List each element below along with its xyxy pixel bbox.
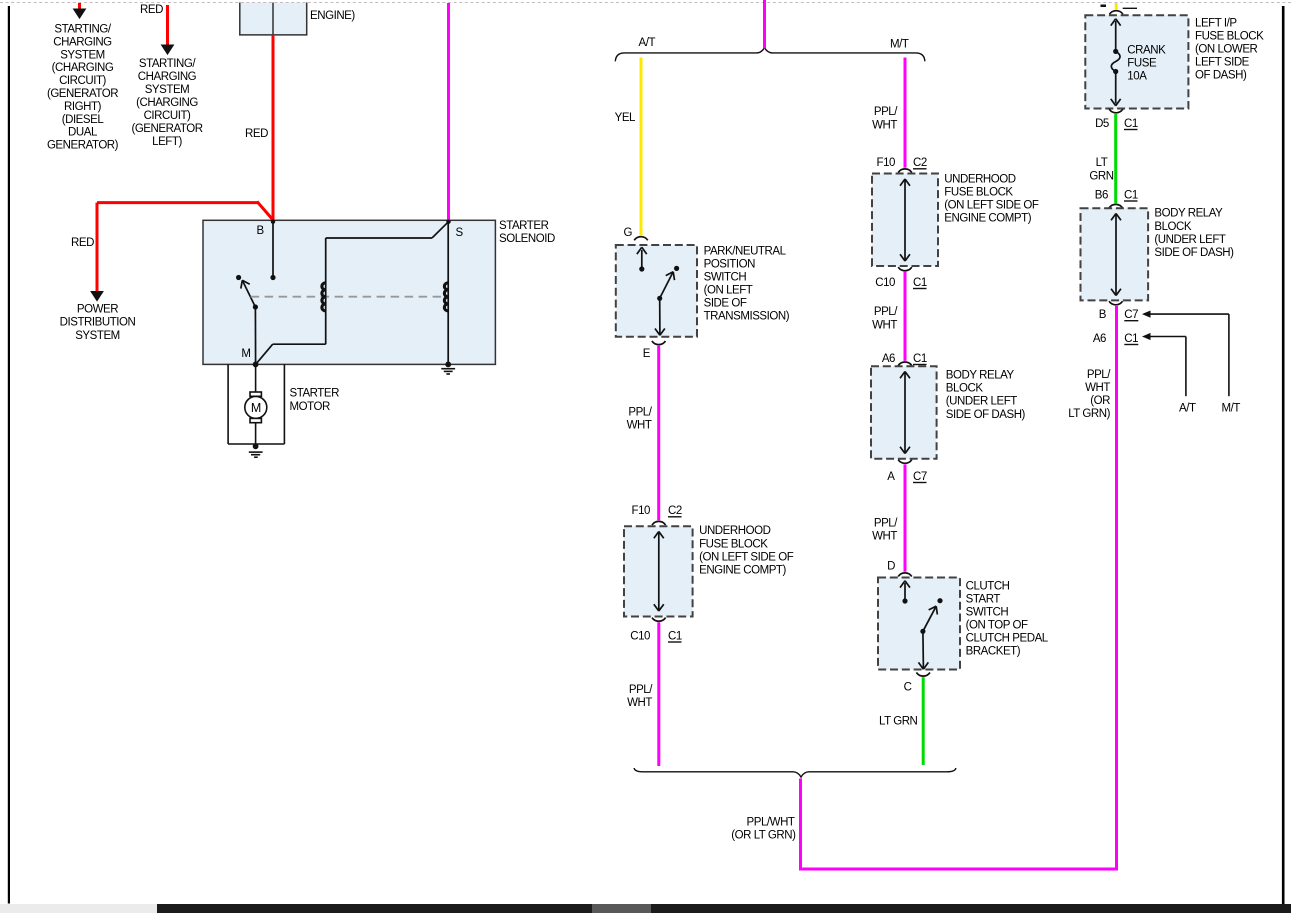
- svg-text:SIDE OF DASH): SIDE OF DASH): [1154, 247, 1234, 259]
- svg-text:FUSE: FUSE: [1127, 57, 1157, 69]
- svg-text:(ON LEFT SIDE OF: (ON LEFT SIDE OF: [699, 551, 794, 563]
- svg-text:CHARGING: CHARGING: [53, 36, 112, 48]
- svg-text:WHT: WHT: [872, 119, 897, 131]
- svg-text:FUSE BLOCK: FUSE BLOCK: [1195, 31, 1264, 43]
- svg-text:OF DASH): OF DASH): [1195, 69, 1247, 81]
- svg-text:S: S: [456, 227, 464, 239]
- svg-text:UNDERHOOD: UNDERHOOD: [944, 173, 1015, 185]
- svg-text:POSITION: POSITION: [704, 258, 755, 270]
- svg-text:C2: C2: [668, 505, 682, 517]
- svg-text:STARTER: STARTER: [499, 220, 549, 232]
- svg-text:ENGINE COMPT): ENGINE COMPT): [699, 564, 786, 576]
- svg-text:M: M: [251, 401, 261, 415]
- svg-text:C10: C10: [630, 631, 650, 643]
- svg-text:PPL/: PPL/: [628, 406, 652, 418]
- svg-text:B: B: [1099, 309, 1107, 321]
- svg-text:STARTER: STARTER: [290, 388, 340, 400]
- svg-text:C: C: [904, 682, 912, 694]
- svg-text:SOLENOID: SOLENOID: [499, 233, 555, 245]
- svg-text:BODY RELAY: BODY RELAY: [946, 370, 1015, 382]
- svg-text:C2: C2: [913, 157, 927, 169]
- svg-text:WHT: WHT: [872, 319, 897, 331]
- svg-text:BODY RELAY: BODY RELAY: [1154, 208, 1223, 220]
- svg-text:FUSE BLOCK: FUSE BLOCK: [699, 538, 768, 550]
- svg-text:D5: D5: [1095, 118, 1109, 130]
- svg-text:RED: RED: [140, 4, 163, 16]
- svg-text:SYSTEM: SYSTEM: [60, 49, 105, 61]
- svg-text:PPL/: PPL/: [629, 684, 653, 696]
- svg-text:A6: A6: [1093, 333, 1106, 345]
- svg-text:F10: F10: [632, 505, 651, 517]
- svg-text:CLUTCH PEDAL: CLUTCH PEDAL: [966, 633, 1049, 645]
- svg-text:M: M: [241, 348, 250, 360]
- svg-text:BRACKET): BRACKET): [966, 646, 1021, 658]
- svg-text:BLOCK: BLOCK: [1154, 221, 1192, 233]
- svg-text:CRANK: CRANK: [1127, 44, 1166, 56]
- svg-text:LT GRN: LT GRN: [879, 716, 918, 728]
- svg-text:C7: C7: [1124, 309, 1138, 321]
- svg-text:(DIESEL: (DIESEL: [62, 114, 105, 126]
- svg-text:WHT: WHT: [627, 697, 652, 709]
- svg-text:(ON LEFT: (ON LEFT: [704, 285, 753, 297]
- svg-text:B6: B6: [1095, 190, 1108, 202]
- svg-text:MOTOR: MOTOR: [290, 401, 330, 413]
- svg-text:RED: RED: [71, 237, 94, 249]
- svg-text:SWITCH: SWITCH: [704, 272, 747, 284]
- svg-text:(ON TOP OF: (ON TOP OF: [966, 620, 1028, 632]
- svg-text:CIRCUIT): CIRCUIT): [144, 110, 191, 122]
- svg-text:WHT: WHT: [1085, 382, 1110, 394]
- svg-text:PPL/: PPL/: [874, 106, 898, 118]
- svg-text:SIDE OF DASH): SIDE OF DASH): [946, 409, 1026, 421]
- svg-text:E: E: [643, 348, 651, 360]
- svg-text:(ON LOWER: (ON LOWER: [1195, 44, 1258, 56]
- svg-text:(UNDER LEFT: (UNDER LEFT: [946, 396, 1018, 408]
- svg-text:CIRCUIT): CIRCUIT): [59, 75, 106, 87]
- svg-text:ENGINE COMPT): ENGINE COMPT): [944, 213, 1031, 225]
- svg-text:POWER: POWER: [77, 304, 118, 316]
- svg-text:LEFT): LEFT): [152, 136, 182, 148]
- svg-text:(GENERATOR: (GENERATOR: [47, 88, 118, 100]
- svg-text:A: A: [887, 471, 895, 483]
- svg-text:(OR LT GRN): (OR LT GRN): [731, 830, 796, 842]
- svg-text:PARK/NEUTRAL: PARK/NEUTRAL: [704, 245, 787, 257]
- svg-text:DISTRIBUTION: DISTRIBUTION: [60, 317, 136, 329]
- svg-text:LT: LT: [1096, 157, 1108, 169]
- svg-text:M/T: M/T: [1222, 402, 1241, 414]
- svg-text:(UNDER LEFT: (UNDER LEFT: [1154, 234, 1226, 246]
- svg-text:ENGINE): ENGINE): [310, 10, 355, 22]
- svg-text:TRANSMISSION): TRANSMISSION): [704, 311, 790, 323]
- svg-text:(GENERATOR: (GENERATOR: [131, 123, 202, 135]
- svg-text:DUAL: DUAL: [68, 127, 98, 139]
- svg-text:A6: A6: [882, 353, 895, 365]
- svg-text:10A: 10A: [1127, 70, 1147, 82]
- svg-text:CHARGING: CHARGING: [138, 71, 197, 83]
- svg-text:LEFT I/P: LEFT I/P: [1195, 18, 1237, 30]
- svg-text:FUSE BLOCK: FUSE BLOCK: [944, 186, 1013, 198]
- svg-text:PPL/WHT: PPL/WHT: [747, 816, 795, 828]
- svg-text:(ON LEFT SIDE OF: (ON LEFT SIDE OF: [944, 200, 1039, 212]
- svg-text:(CHARGING: (CHARGING: [136, 97, 198, 109]
- svg-text:STARTING/: STARTING/: [139, 58, 196, 70]
- svg-text:BLOCK: BLOCK: [946, 383, 984, 395]
- svg-text:YEL: YEL: [615, 112, 636, 124]
- svg-text:C1: C1: [913, 353, 927, 365]
- svg-text:PPL/: PPL/: [874, 306, 898, 318]
- svg-text:F10: F10: [877, 157, 896, 169]
- svg-text:SWITCH: SWITCH: [966, 607, 1009, 619]
- svg-text:C1: C1: [1124, 333, 1138, 345]
- svg-text:C1: C1: [668, 631, 682, 643]
- svg-text:C10: C10: [875, 277, 895, 289]
- svg-text:C1: C1: [1124, 190, 1138, 202]
- svg-text:START: START: [966, 593, 1001, 605]
- svg-text:RED: RED: [245, 128, 268, 140]
- svg-text:C1: C1: [913, 277, 927, 289]
- svg-text:(OR: (OR: [1090, 395, 1110, 407]
- svg-text:C7: C7: [913, 471, 927, 483]
- svg-text:GRN: GRN: [1089, 170, 1113, 182]
- svg-text:LT GRN): LT GRN): [1068, 408, 1110, 420]
- svg-text:SYSTEM: SYSTEM: [75, 330, 120, 342]
- svg-text:LEFT SIDE: LEFT SIDE: [1195, 56, 1250, 68]
- svg-text:SIDE OF: SIDE OF: [704, 298, 747, 310]
- svg-text:(CHARGING: (CHARGING: [52, 62, 114, 74]
- svg-text:A/T: A/T: [1179, 402, 1196, 414]
- svg-text:D: D: [887, 561, 895, 573]
- svg-text:SYSTEM: SYSTEM: [145, 84, 190, 96]
- svg-text:WHT: WHT: [872, 530, 897, 542]
- svg-text:GENERATOR): GENERATOR): [47, 140, 119, 152]
- svg-text:G: G: [624, 227, 633, 239]
- svg-text:C1: C1: [1124, 118, 1138, 130]
- svg-text:PPL/: PPL/: [874, 517, 898, 529]
- svg-text:UNDERHOOD: UNDERHOOD: [699, 525, 770, 537]
- svg-text:WHT: WHT: [627, 420, 652, 432]
- svg-text:A/T: A/T: [639, 37, 656, 49]
- svg-text:RIGHT): RIGHT): [64, 101, 102, 113]
- svg-text:PPL/: PPL/: [1087, 369, 1111, 381]
- svg-text:CLUTCH: CLUTCH: [966, 580, 1010, 592]
- svg-text:STARTING/: STARTING/: [54, 24, 111, 36]
- svg-text:M/T: M/T: [890, 39, 909, 51]
- svg-text:B: B: [257, 225, 265, 237]
